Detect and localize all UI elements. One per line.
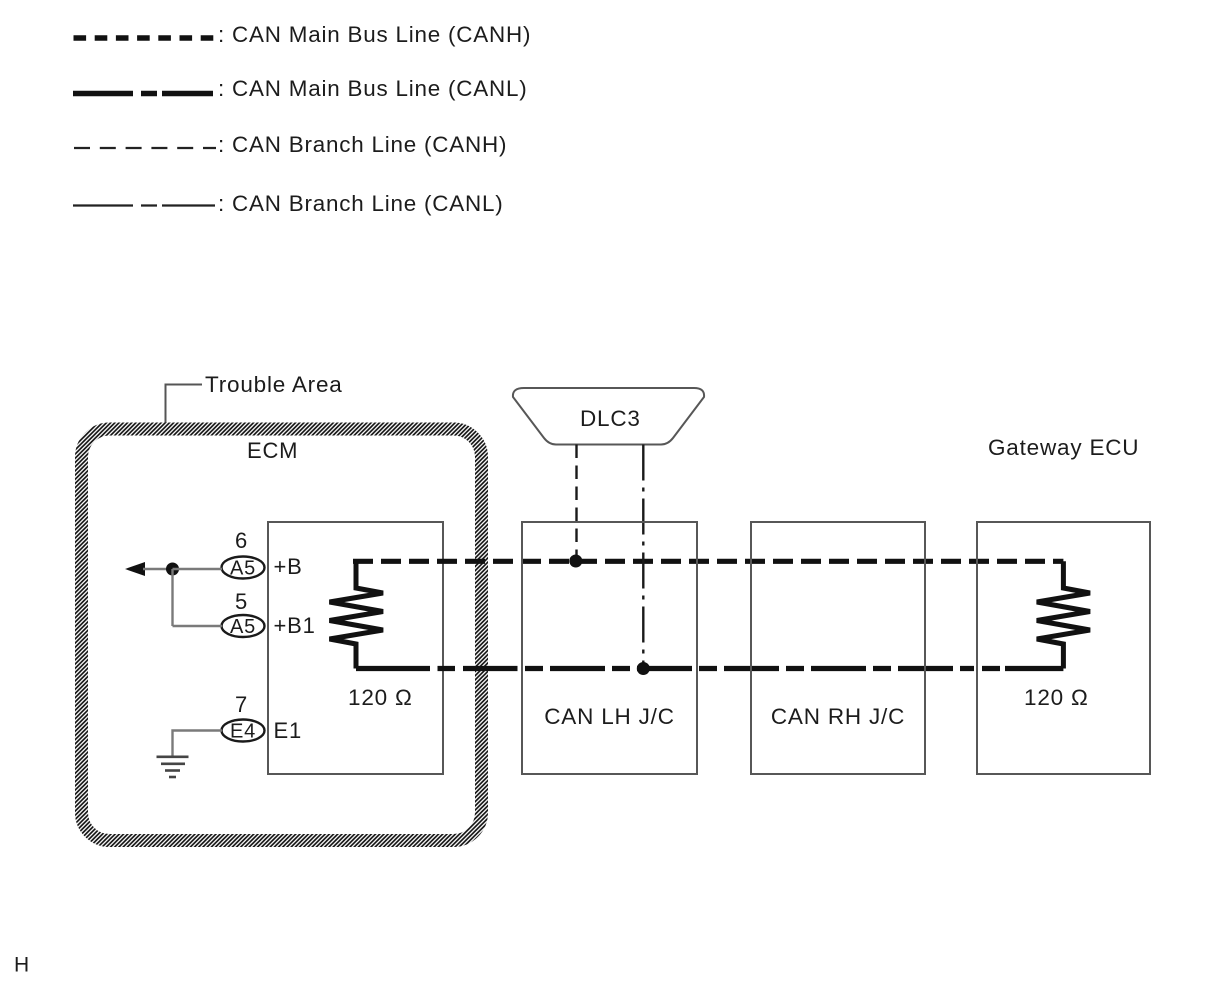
resistor R-gateway 120 ohm (zigzag) bbox=[1037, 561, 1090, 668]
wire pin 7 to ground bbox=[173, 731, 223, 757]
svg-text:: CAN Main Bus Line (CANL): : CAN Main Bus Line (CANL) bbox=[218, 76, 527, 101]
wire node to pin 6 bbox=[173, 568, 223, 570]
svg-text:: CAN Branch Line (CANH): : CAN Branch Line (CANH) bbox=[218, 132, 507, 157]
legend sample: CAN Main Bus Line (CANL) thick long-short dash bbox=[73, 91, 213, 96]
svg-text:CAN RH J/C: CAN RH J/C bbox=[771, 704, 905, 729]
legend sample: CAN Main Bus Line (CANH) thick dashed bbox=[74, 35, 215, 40]
svg-text:120 Ω: 120 Ω bbox=[348, 685, 413, 710]
svg-text:7: 7 bbox=[235, 692, 248, 717]
CAN main bus line CANL (thick long-short dash) from ECM resistor to gateway resistor bbox=[356, 666, 1063, 671]
connector pin A5 (pin 5) bbox=[222, 615, 265, 637]
Gateway ECU box bbox=[977, 522, 1150, 774]
svg-text:: CAN Branch Line (CANL): : CAN Branch Line (CANL) bbox=[218, 191, 504, 216]
CAN branch line CANL from DLC3 (thin long-short dash) bbox=[642, 445, 644, 669]
svg-text:5: 5 bbox=[235, 589, 248, 614]
svg-text:A5: A5 bbox=[230, 616, 256, 638]
wire to pin 5 bbox=[173, 625, 223, 627]
svg-text:DLC3: DLC3 bbox=[580, 406, 641, 431]
svg-text:Trouble Area: Trouble Area bbox=[205, 372, 343, 397]
Trouble Area hatched rounded border bbox=[82, 429, 482, 841]
svg-text:120 Ω: 120 Ω bbox=[1024, 685, 1089, 710]
svg-text:Gateway ECU: Gateway ECU bbox=[988, 435, 1139, 460]
svg-text:A5: A5 bbox=[230, 558, 256, 580]
CAN main bus line CANH (thick dashed) from ECM resistor to gateway resistor bbox=[353, 559, 1063, 564]
CAN branch line CANH from DLC3 (thin dashed) bbox=[575, 445, 577, 562]
svg-text:H: H bbox=[14, 954, 30, 977]
svg-text:E4: E4 bbox=[230, 721, 256, 743]
connector pin E4 (pin 7) bbox=[222, 720, 265, 742]
CAN LH J/C box bbox=[522, 522, 697, 774]
junction node dot at +B feed bbox=[166, 563, 179, 576]
junction node DLC3 CANH on bus bbox=[569, 555, 582, 568]
ECM internal box bbox=[268, 522, 443, 774]
CAN RH J/C box bbox=[751, 522, 925, 774]
power feed arrowhead bbox=[125, 562, 145, 576]
svg-text:6: 6 bbox=[235, 528, 248, 553]
wire node down to pin 5 level bbox=[171, 569, 173, 626]
svg-text:ECM: ECM bbox=[247, 438, 298, 463]
resistor R-ECM 120 ohm (zigzag) bbox=[330, 561, 384, 668]
svg-text:+B1: +B1 bbox=[274, 613, 316, 638]
legend sample: CAN Branch Line (CANL) thin long-short dash bbox=[73, 204, 215, 206]
svg-text:E1: E1 bbox=[274, 718, 303, 743]
ground symbol bbox=[157, 757, 189, 777]
connector pin A5 (pin 6) bbox=[222, 557, 265, 579]
DLC3 connector outline bbox=[513, 388, 704, 445]
junction node DLC3 CANL on bus bbox=[637, 662, 650, 675]
legend sample: CAN Branch Line (CANH) thin dashed bbox=[74, 147, 216, 149]
svg-text:CAN LH J/C: CAN LH J/C bbox=[544, 704, 675, 729]
Trouble Area callout leader line bbox=[166, 385, 203, 424]
svg-text:+B: +B bbox=[274, 554, 303, 579]
wire from arrow to node bbox=[143, 568, 173, 570]
svg-text:: CAN Main Bus Line (CANH): : CAN Main Bus Line (CANH) bbox=[218, 22, 531, 47]
